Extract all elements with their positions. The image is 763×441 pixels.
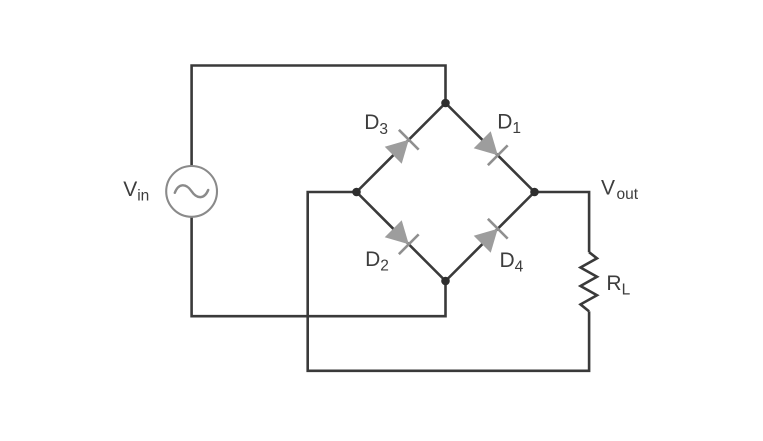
node bottom (441, 277, 450, 286)
node left (352, 188, 361, 197)
diode D2 (383, 219, 418, 254)
diode D3 (383, 130, 418, 165)
wire from left node down and across to RL bottom (308, 192, 589, 371)
label D2 (365, 248, 389, 275)
label RL (606, 272, 630, 299)
resistor RL (581, 252, 598, 311)
label D4 (500, 249, 524, 276)
label Vin (123, 178, 149, 205)
wire bridge arm D2 (left node to bottom node) (357, 192, 446, 281)
wire from right node to RL top (535, 192, 590, 252)
diode D1 (472, 130, 507, 165)
node top (441, 99, 450, 108)
AC voltage source Vin (166, 166, 217, 217)
node right (530, 188, 539, 197)
wire bridge arm D3 (left node to top node) (357, 103, 446, 192)
diode D4 (472, 219, 507, 254)
label D3 (364, 111, 388, 138)
wire bridge arm D1 (top node to right node) (446, 103, 535, 192)
wire bridge arm D4 (bottom node to right node) (446, 192, 535, 281)
wire bottom from Vin to bottom node (192, 217, 446, 317)
label Vout (601, 176, 639, 203)
label D1 (497, 110, 521, 137)
wire top loop from Vin to top node (192, 66, 446, 167)
